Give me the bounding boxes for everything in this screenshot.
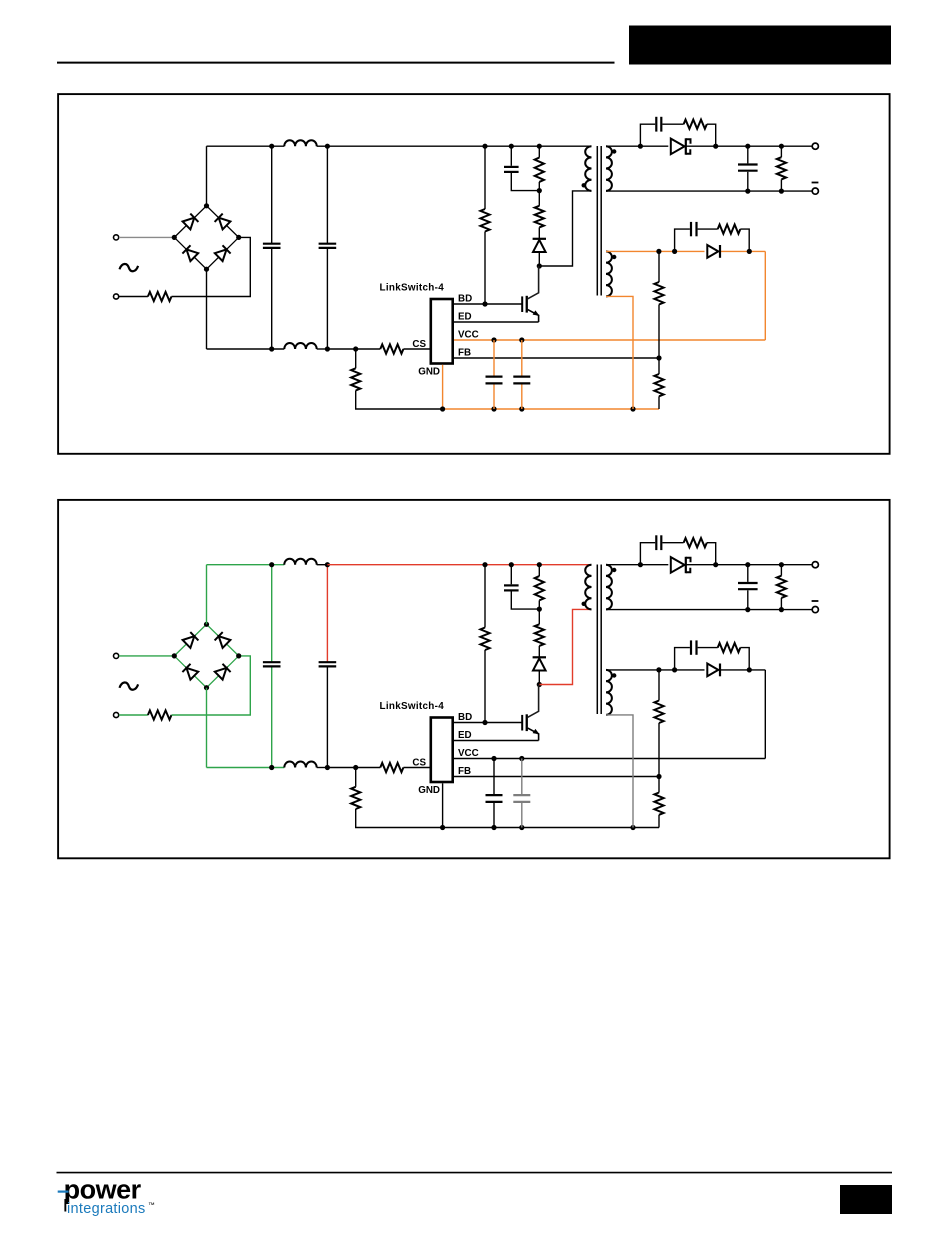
svg-text:GND: GND — [418, 785, 440, 796]
svg-text:BD: BD — [458, 712, 472, 723]
svg-text:CS: CS — [412, 339, 426, 350]
svg-text:ED: ED — [458, 730, 472, 741]
svg-text:CS: CS — [412, 758, 426, 769]
svg-text:FB: FB — [458, 766, 471, 777]
svg-text:FB: FB — [458, 348, 471, 359]
svg-text:GND: GND — [418, 367, 440, 378]
svg-text:™: ™ — [148, 1202, 155, 1209]
svg-text:VCC: VCC — [458, 748, 479, 759]
svg-text:BD: BD — [458, 294, 472, 305]
svg-text:power: power — [64, 1175, 142, 1205]
svg-text:LinkSwitch-4: LinkSwitch-4 — [380, 283, 445, 294]
svg-text:integrations: integrations — [67, 1201, 146, 1217]
svg-text:ED: ED — [458, 312, 472, 323]
svg-text:LinkSwitch-4: LinkSwitch-4 — [380, 701, 445, 712]
svg-text:VCC: VCC — [458, 330, 479, 341]
